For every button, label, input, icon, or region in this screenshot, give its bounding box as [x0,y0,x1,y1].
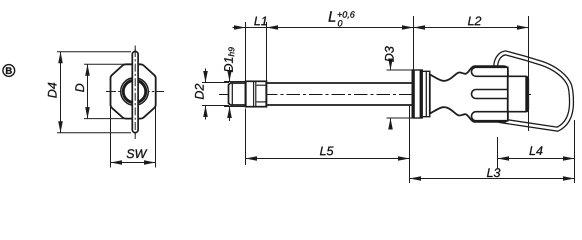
dimension D extension lines [84,63,124,65]
L2 right extension line over ring [528,16,530,131]
dimension D4 line [60,52,62,133]
grip slot top [472,67,508,76]
front view vertical centerline [134,46,136,140]
dimension D3 extension lines [387,69,413,71]
grip slot middle [472,90,508,99]
pin main centerline [219,94,534,96]
dimension L text with tolerance [329,11,336,21]
dimension D1 h9 line and arrows [229,67,231,82]
view label B [3,65,15,77]
washer behind grip [422,71,430,116]
dimension L2 text [468,17,481,26]
collar bore lines [257,84,267,86]
front view flat bar (grip edge-on) [132,52,138,133]
L / L2 shared extension line (flange face) [413,16,415,70]
flange plate [412,70,422,118]
L2 right extension line [528,16,530,131]
dimension D2 line and arrows [205,69,207,83]
front view outer circle [121,78,149,106]
block right edge [507,67,509,122]
dimension SW line [111,162,156,164]
dimension L2 line [414,27,529,29]
dimension D text [75,84,84,92]
dimension L3 line [410,178,575,180]
dimension L1 text [254,17,266,26]
dimension L line [246,27,414,29]
bar centerline [134,49,136,136]
dimension L4 text [529,146,542,155]
ball collar [246,81,267,106]
dimension D1 h9 extension lines [224,81,246,83]
pin tip (nose) [229,83,246,105]
dimension SW text [127,149,148,158]
end button [508,76,529,111]
L4/L3 right extension line over ring [574,120,576,183]
dimension D3 line and arrows [390,61,392,70]
tip chamfer line [231,83,233,105]
dimension L5 text [320,147,334,156]
dimension L3 text [487,168,500,177]
dimension L5 extension [245,109,247,166]
stirrup ring wire [496,53,572,129]
dimension D2 extension lines [202,82,229,84]
shaft top edge [267,82,413,84]
dimension D4 extension lines [57,51,131,53]
dimension D3 text [385,46,394,61]
front view ring circle [123,80,146,103]
grip body with end block [430,66,508,122]
front view horizontal centerline [106,91,164,93]
shaft bottom edge [267,104,413,106]
dimension L4 line [498,158,575,160]
dimension L1 line (left tail) [233,27,246,29]
dimension D4 text [48,83,57,98]
dimension L1 extension lines [245,22,247,81]
collar sleeve lines [253,82,255,107]
long extension line at shaft end face [409,106,411,183]
dimension D2 text [195,84,204,99]
dimension D line [87,64,89,118]
front view hex body [111,64,156,118]
dimension L4 extension lines [497,137,499,169]
grip slot bottom [472,112,508,121]
dimension D1 h9 text [224,47,234,72]
dimension L5 line [246,158,410,160]
dimension SW extension lines [110,107,112,168]
